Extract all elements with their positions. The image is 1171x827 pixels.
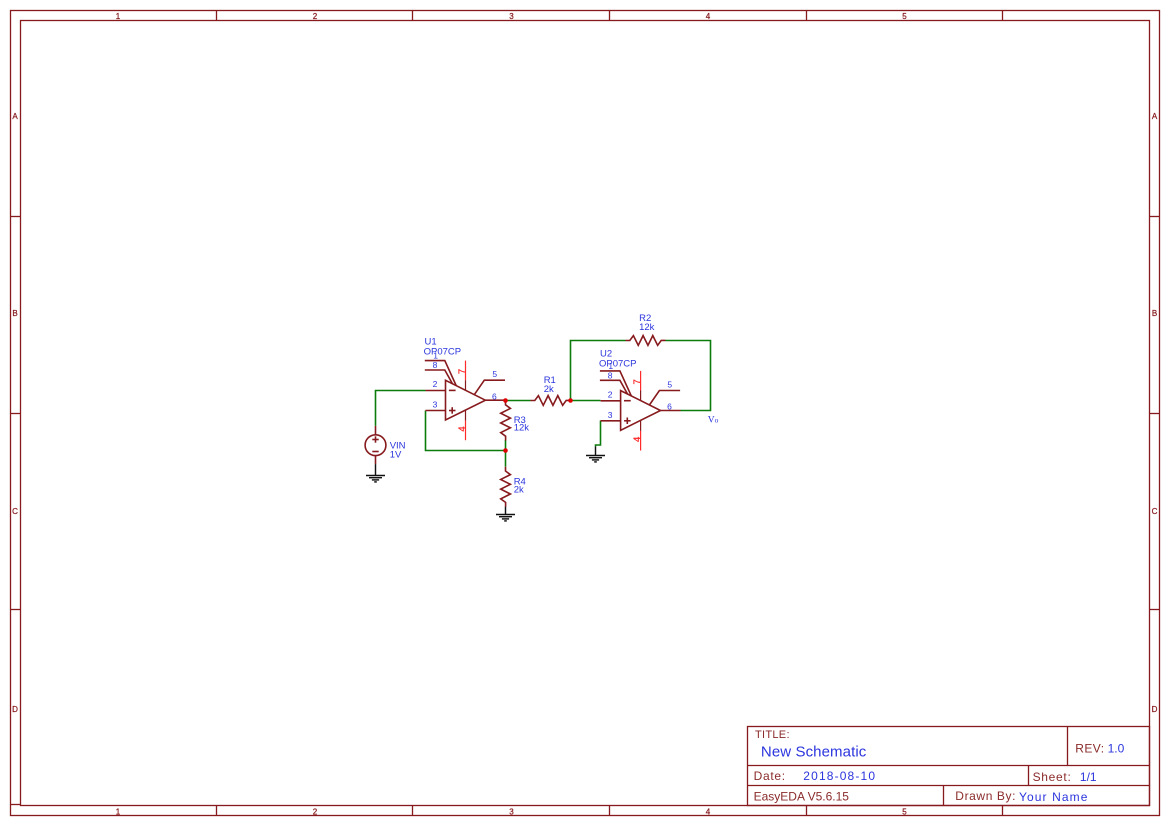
svg-text:2: 2	[433, 379, 438, 389]
voltage source VIN	[365, 426, 386, 464]
label R4 2k	[514, 477, 526, 496]
svg-text:4: 4	[706, 12, 711, 21]
svg-text:1V: 1V	[390, 450, 402, 461]
U1 pin 4	[457, 410, 468, 440]
svg-text:Your Name: Your Name	[1019, 790, 1089, 804]
svg-text:Drawn By:: Drawn By:	[955, 789, 1016, 803]
title block	[748, 727, 1150, 806]
svg-text:B: B	[12, 309, 17, 318]
svg-text:A: A	[12, 112, 18, 121]
label U1 OP07CP	[424, 337, 462, 358]
ground (U2 pin 3)	[586, 446, 605, 462]
svg-text:3: 3	[509, 807, 514, 816]
ground (below R4)	[496, 507, 515, 521]
svg-text:4: 4	[706, 807, 711, 816]
resistor R3	[501, 401, 511, 441]
resistor R4	[501, 467, 511, 507]
U1 pin number labels	[433, 351, 498, 410]
svg-text:8: 8	[608, 370, 613, 380]
svg-text:Date:: Date:	[754, 769, 786, 783]
op-amp U1 symbol	[425, 361, 506, 420]
svg-text:8: 8	[433, 360, 438, 370]
svg-text:1/1: 1/1	[1080, 770, 1097, 784]
U2 pin number labels	[608, 361, 673, 420]
svg-text:2: 2	[313, 12, 318, 21]
svg-text:Sheet:: Sheet:	[1033, 770, 1072, 784]
label U2 OP07CP	[599, 349, 637, 370]
junction node: R1 / R2 / U2 pin 2	[568, 398, 573, 403]
label R3 12k	[514, 415, 530, 434]
ground (below VIN)	[366, 464, 385, 482]
junction node: R3 / R4 / feedback	[503, 448, 508, 453]
svg-text:B: B	[1152, 309, 1157, 318]
svg-text:TITLE:: TITLE:	[755, 729, 790, 741]
svg-text:C: C	[1152, 507, 1158, 516]
label R1 2k	[544, 375, 556, 395]
wire VIN+ to U1 pin 2 (net IN)	[376, 391, 426, 426]
svg-text:New Schematic: New Schematic	[761, 743, 867, 760]
label R2 12k	[639, 313, 655, 333]
svg-text:D: D	[12, 705, 18, 714]
svg-text:3: 3	[433, 400, 438, 410]
svg-text:OP07CP: OP07CP	[424, 347, 462, 358]
svg-text:5: 5	[667, 380, 672, 390]
svg-text:6: 6	[492, 391, 497, 401]
wire U1 output to R1 left	[506, 400, 531, 402]
wire R3 bottom to node	[505, 440, 507, 451]
U1 pin 7	[457, 361, 468, 391]
svg-text:4: 4	[457, 426, 468, 431]
wire R1 right node to U2 pin 2	[571, 400, 601, 402]
svg-text:EasyEDA V5.6.15: EasyEDA V5.6.15	[754, 789, 850, 803]
svg-text:2k: 2k	[544, 384, 554, 395]
svg-text:1.0: 1.0	[1108, 741, 1125, 755]
svg-text:12k: 12k	[514, 423, 530, 434]
svg-text:7: 7	[632, 379, 643, 384]
resistor R2	[626, 336, 666, 346]
svg-text:1: 1	[116, 12, 121, 21]
svg-text:12k: 12k	[639, 322, 655, 333]
svg-text:2: 2	[608, 390, 613, 400]
U2 pin 4	[632, 421, 643, 451]
svg-text:A: A	[1152, 112, 1158, 121]
svg-text:3: 3	[608, 410, 613, 420]
svg-text:D: D	[1152, 705, 1158, 714]
resistor R1	[531, 396, 571, 406]
svg-text:5: 5	[902, 807, 907, 816]
svg-text:4: 4	[632, 437, 643, 442]
svg-text:3: 3	[509, 12, 514, 21]
U2 pin 7	[632, 371, 643, 401]
svg-text:Vo: Vo	[708, 415, 719, 425]
junction node: U1 output / R3	[503, 398, 508, 403]
op-amp U2 symbol	[600, 371, 681, 430]
svg-text:7: 7	[457, 369, 468, 374]
svg-text:OP07CP: OP07CP	[599, 359, 637, 370]
svg-text:2018-08-10: 2018-08-10	[803, 769, 876, 783]
wire R2 right to U2 output (net Vo)	[666, 341, 711, 411]
svg-text:6: 6	[667, 402, 672, 412]
wire node up to R2 left	[571, 341, 626, 401]
svg-text:5: 5	[902, 12, 907, 21]
svg-text:REV:: REV:	[1075, 741, 1104, 755]
wire U1 pin 3 to R3/R4 node (feedback)	[426, 411, 504, 451]
svg-text:5: 5	[492, 369, 497, 379]
svg-text:2k: 2k	[514, 484, 524, 495]
svg-text:1: 1	[116, 807, 121, 816]
svg-text:C: C	[12, 507, 18, 516]
wire U2 pin 3 to ground	[596, 421, 601, 447]
wire node to R4 top	[505, 451, 507, 467]
svg-text:2: 2	[313, 807, 318, 816]
label VIN 1V	[390, 441, 406, 461]
